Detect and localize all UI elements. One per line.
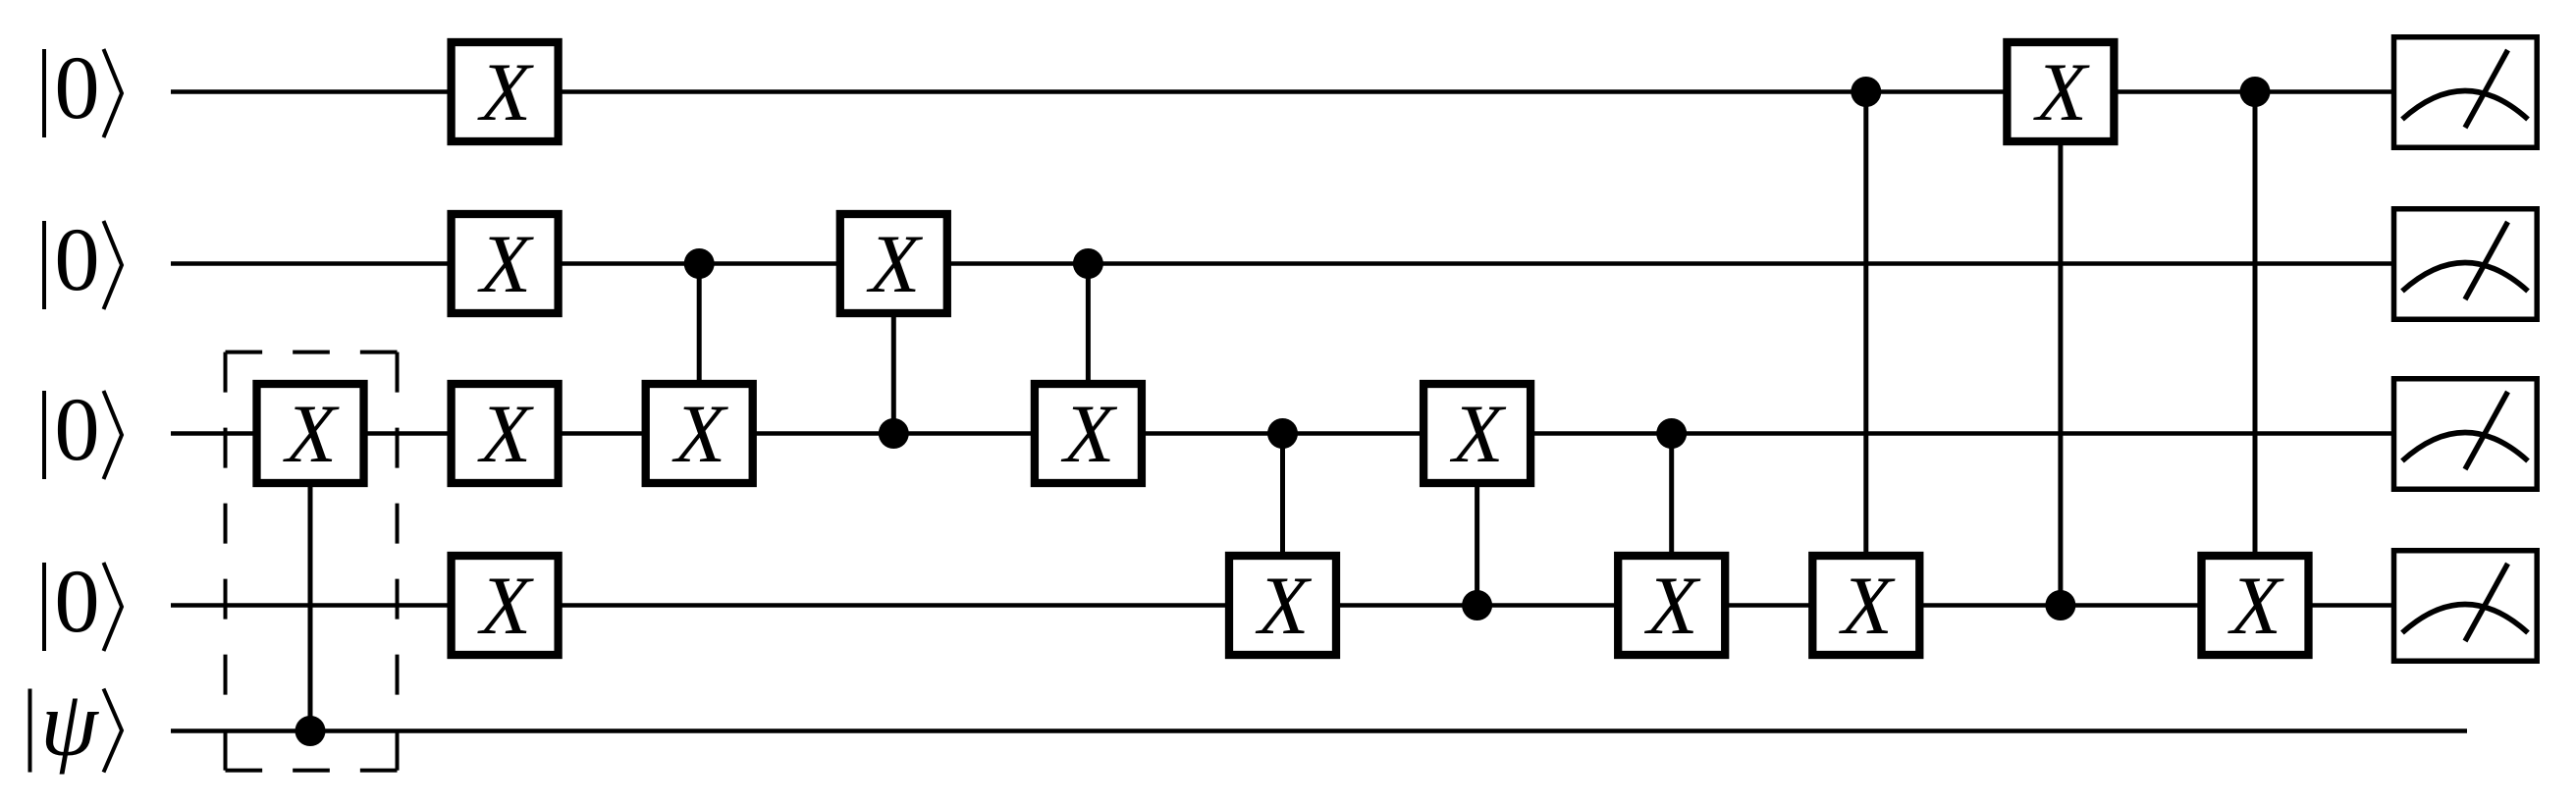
X gate col 5 on q3: [1229, 556, 1336, 655]
X gate col 1 on q3: [452, 556, 559, 655]
svg-text:X: X: [477, 388, 534, 480]
ket label |0> for q1: [44, 210, 122, 310]
svg-text:X: X: [2227, 560, 2284, 652]
control dot col 10 on q0: [2240, 77, 2271, 107]
dashed highlight box around first CNOT: [226, 352, 398, 771]
wire vertical connector col 9 (q0 to q3): [2058, 92, 2063, 606]
wire vertical connector col 7 (q2 to q3): [1669, 434, 1674, 606]
svg-text:X: X: [1060, 388, 1117, 480]
control dot col 4 on q1: [1073, 248, 1103, 279]
svg-text:X: X: [671, 388, 728, 480]
svg-text:X: X: [1256, 560, 1313, 652]
ket label |0> for q3: [44, 552, 122, 652]
svg-text:X: X: [1839, 560, 1896, 652]
wire vertical connector col 10 (q0 to q3): [2253, 92, 2258, 606]
wire q2: [171, 431, 2393, 436]
X gate col 7 on q3: [1618, 556, 1725, 655]
wire vertical connector col 2 (q1 to q2): [697, 264, 702, 434]
control dot col 3 on q2: [879, 418, 909, 449]
control dot col 5 on q2: [1267, 418, 1298, 449]
X gate col 0 on q2: [257, 384, 364, 483]
X gate col 9 on q0: [2007, 42, 2114, 141]
measurement meter on q0: [2394, 37, 2538, 148]
control dot col 8 on q0: [1851, 77, 1881, 107]
X gate col 1 on q0: [452, 42, 559, 141]
svg-text:X: X: [866, 218, 923, 310]
svg-text:X: X: [2033, 46, 2090, 138]
wire vertical connector col 3 (q1 to q2): [891, 264, 896, 434]
measurement meter on q3: [2394, 551, 2538, 662]
X gate col 6 on q2: [1423, 384, 1530, 483]
svg-text:0: 0: [54, 552, 99, 652]
svg-text:0: 0: [54, 380, 99, 480]
control dot col 0 on psi: [295, 716, 326, 746]
svg-text:X: X: [1450, 388, 1507, 480]
svg-text:ψ: ψ: [40, 674, 99, 776]
control dot col 2 on q1: [684, 248, 715, 279]
wire vertical connector col 6 (q2 to q3): [1475, 434, 1479, 606]
measurement meter on q1: [2394, 209, 2538, 320]
ket label |0> for q2: [44, 380, 122, 480]
svg-text:0: 0: [54, 38, 99, 138]
svg-text:X: X: [1644, 560, 1701, 652]
wire vertical connector col 8 (q0 to q3): [1863, 92, 1868, 606]
svg-text:X: X: [283, 388, 340, 480]
ket label |0> for q0: [44, 38, 122, 138]
X gate col 4 on q2: [1035, 384, 1142, 483]
X gate col 3 on q1: [840, 214, 947, 313]
svg-text:X: X: [477, 46, 534, 138]
wire vertical connector col 4 (q1 to q2): [1086, 264, 1091, 434]
X gate col 1 on q2: [452, 384, 559, 483]
X gate col 8 on q3: [1812, 556, 1919, 655]
X gate col 1 on q1: [452, 214, 559, 313]
wire q1: [171, 261, 2393, 266]
wire psi: [171, 728, 2467, 733]
ket label |psi> for psi wire: [30, 674, 123, 776]
control dot col 9 on q3: [2045, 590, 2075, 620]
svg-text:0: 0: [54, 210, 99, 310]
measurement meter on q2: [2394, 379, 2538, 490]
svg-text:X: X: [477, 560, 534, 652]
wire q0: [171, 89, 2393, 94]
X gate col 10 on q3: [2202, 556, 2309, 655]
wire vertical connector col 0 (q2 to psi): [308, 434, 313, 731]
wire q3: [171, 603, 2393, 608]
control dot col 7 on q2: [1656, 418, 1687, 449]
control dot col 6 on q3: [1462, 590, 1492, 620]
svg-text:X: X: [477, 218, 534, 310]
X gate col 2 on q2: [646, 384, 753, 483]
wire vertical connector col 5 (q2 to q3): [1280, 434, 1285, 606]
